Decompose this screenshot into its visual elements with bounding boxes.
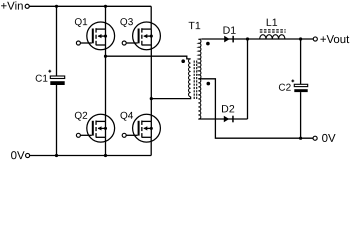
svg-text:Q1: Q1 <box>74 17 88 28</box>
svg-text:0V: 0V <box>11 150 25 162</box>
svg-text:Q2: Q2 <box>74 111 88 122</box>
svg-text:D1: D1 <box>223 25 237 37</box>
svg-text:0V: 0V <box>322 133 336 145</box>
svg-text:+Vout: +Vout <box>320 34 350 46</box>
svg-text:C1: C1 <box>35 74 48 85</box>
svg-text:C2: C2 <box>278 83 291 94</box>
svg-text:T1: T1 <box>188 20 200 32</box>
svg-text:D2: D2 <box>221 103 235 115</box>
svg-text:Q3: Q3 <box>120 17 134 28</box>
svg-text:+Vin: +Vin <box>1 1 24 13</box>
svg-text:L1: L1 <box>266 17 278 29</box>
svg-text:Q4: Q4 <box>120 111 134 122</box>
